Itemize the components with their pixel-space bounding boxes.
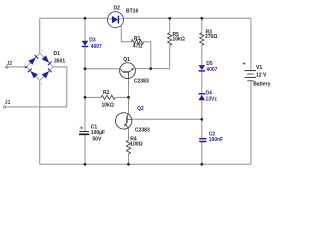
svg-text:C2383: C2383 <box>135 127 150 133</box>
svg-text:270Ω: 270Ω <box>205 34 217 40</box>
svg-text:4: 4 <box>41 82 43 86</box>
svg-text:1: 1 <box>41 49 43 53</box>
svg-text:Q1: Q1 <box>123 57 130 63</box>
svg-text:J1: J1 <box>5 100 11 106</box>
wire D4 to C2 <box>201 100 203 138</box>
battery V1 <box>243 62 256 81</box>
svg-text:50V: 50V <box>92 137 102 143</box>
resistor R1 <box>132 40 144 44</box>
bridge diode bottom-left <box>30 71 38 78</box>
wire C1 bottom lead <box>84 134 86 164</box>
wire R2 right lead <box>116 96 129 98</box>
capacitor C1 <box>79 126 89 134</box>
bridge diode bottom-right <box>42 71 50 78</box>
wire bridge right vertex to J1 <box>5 67 67 107</box>
junction C1 bottom <box>84 163 87 166</box>
wire R1 right lead drop <box>144 42 151 69</box>
wire D5 to D4 <box>201 71 203 93</box>
resistor R5 <box>168 33 172 46</box>
svg-text:100µF: 100µF <box>91 130 105 136</box>
wire R2 left lead <box>85 96 101 98</box>
wire Q1 collector left <box>85 68 120 70</box>
junction R2 left <box>84 96 87 99</box>
resistor R4 <box>126 140 130 154</box>
wire J2 to bridge left vertex <box>6 66 26 68</box>
svg-text:47Ω: 47Ω <box>133 44 143 50</box>
svg-text:10kΩ: 10kΩ <box>102 103 114 109</box>
diode D2 (circled) <box>108 12 124 28</box>
svg-text:Battery: Battery <box>253 82 270 88</box>
wire R3 to D5 <box>201 45 203 65</box>
wire bridge bottom drop <box>39 81 41 165</box>
wire left drop to bridge top <box>39 18 41 53</box>
junction top R3 <box>200 17 203 20</box>
wire R4 bottom lead <box>128 154 130 165</box>
svg-text:Q2: Q2 <box>137 106 144 112</box>
transistor Q1 <box>120 63 136 79</box>
wire battery bottom drop <box>250 81 252 164</box>
svg-text:13Vz: 13Vz <box>206 97 218 103</box>
svg-text:C2383: C2383 <box>134 79 149 85</box>
bridge pin dot left <box>25 66 27 68</box>
connector J1 <box>4 106 6 108</box>
wire Q1 emitter right to R5 <box>135 45 170 68</box>
bridge rectifier D1 diamond <box>26 53 53 80</box>
wire Q2 base right to zener node <box>132 118 202 120</box>
svg-text:V1: V1 <box>256 65 262 71</box>
wire bottom rail <box>40 163 251 165</box>
junction C2 bottom <box>200 163 203 166</box>
svg-text:BT16: BT16 <box>126 9 138 15</box>
wire Q1 base down to Q2 <box>128 78 130 114</box>
junction R2 right <box>127 96 130 99</box>
resistor R3 <box>200 33 204 46</box>
junction Q1 collector <box>84 67 87 70</box>
diode D3 <box>82 41 89 47</box>
svg-text:4007: 4007 <box>91 44 102 50</box>
junction top R5 <box>168 17 171 20</box>
svg-text:100nF: 100nF <box>209 137 223 143</box>
junction R1 drop <box>149 67 152 70</box>
wire R3 top lead <box>201 18 203 32</box>
svg-text:100Ω: 100Ω <box>130 141 142 147</box>
svg-text:D5: D5 <box>206 61 213 67</box>
junction R4 bottom <box>127 163 130 166</box>
junction top D3 <box>84 17 87 20</box>
svg-text:3501: 3501 <box>54 59 65 65</box>
zener D4 <box>199 94 206 100</box>
transistor Q2 <box>116 113 132 129</box>
svg-text:R2: R2 <box>103 90 110 96</box>
svg-text:4007: 4007 <box>206 67 217 73</box>
bridge diode top-right <box>42 55 50 62</box>
svg-text:12 V: 12 V <box>256 73 267 79</box>
svg-text:10kΩ: 10kΩ <box>173 37 185 43</box>
wire C2 bottom lead <box>201 142 203 165</box>
wire Q2 emitter down to R4 <box>128 128 130 141</box>
wire D2 to R1 left lead <box>121 26 132 42</box>
wire top rail <box>40 17 251 19</box>
bridge diode top-left <box>28 57 36 64</box>
svg-text:2: 2 <box>24 63 26 67</box>
resistor R2 <box>101 95 115 99</box>
svg-text:D2: D2 <box>114 6 121 12</box>
diode D5 <box>199 65 206 71</box>
svg-text:J2: J2 <box>7 61 13 67</box>
svg-text:D4: D4 <box>206 90 213 96</box>
junction Q2 base zener <box>200 118 203 121</box>
wire R5 top lead <box>169 18 171 32</box>
connector J2 <box>6 66 8 68</box>
svg-text:D3: D3 <box>89 38 96 44</box>
wire battery top drop <box>250 18 252 70</box>
wire D3 branch vertical <box>84 18 86 131</box>
svg-text:D1: D1 <box>54 51 61 57</box>
capacitor C2 <box>199 139 206 142</box>
svg-text:R1: R1 <box>134 36 141 42</box>
